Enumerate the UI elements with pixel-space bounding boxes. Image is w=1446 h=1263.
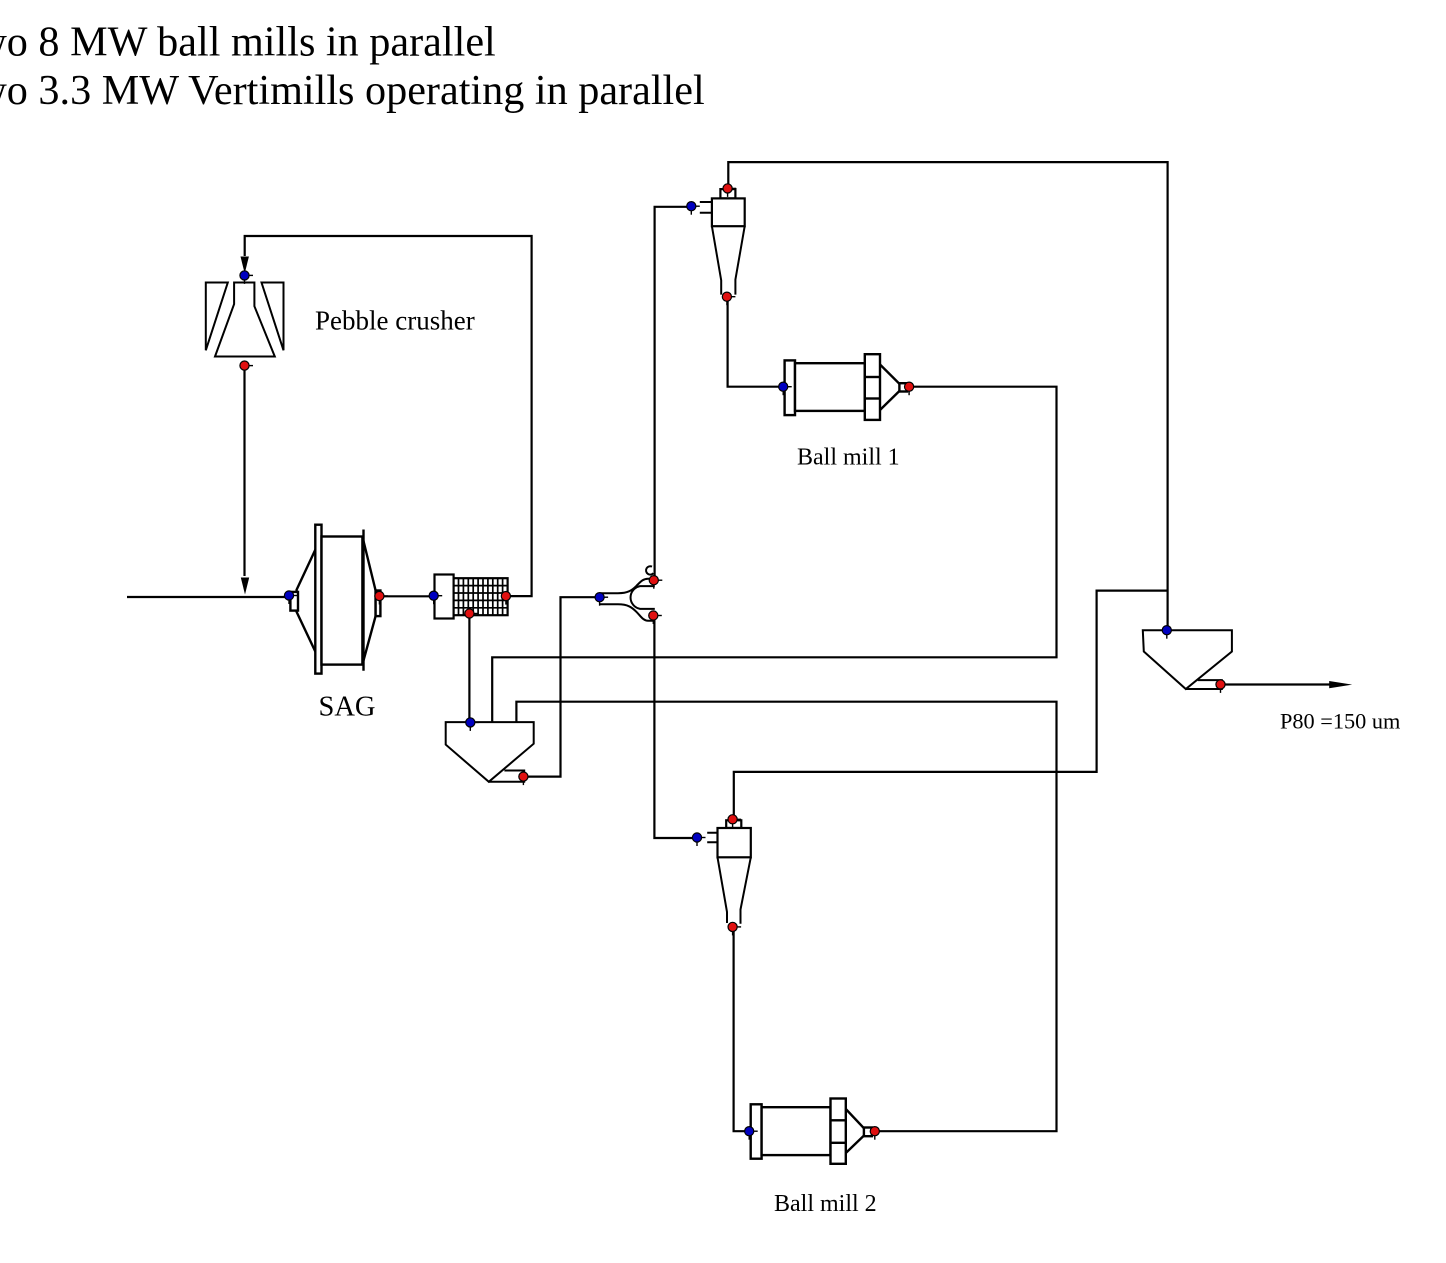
- svg-text:Two 3.3 MW Vertimills operatin: Two 3.3 MW Vertimills operating in paral…: [0, 67, 705, 114]
- svg-text:Ball mill 1: Ball mill 1: [797, 445, 900, 471]
- svg-text:Ball mill 2: Ball mill 2: [774, 1191, 877, 1217]
- svg-text:SAG: SAG: [319, 692, 376, 723]
- svg-text:Two 8 MW ball mills in paralle: Two 8 MW ball mills in parallel: [0, 19, 496, 66]
- svg-text:Pebble crusher: Pebble crusher: [315, 306, 475, 336]
- svg-text:P80 =150 um: P80 =150 um: [1280, 709, 1400, 734]
